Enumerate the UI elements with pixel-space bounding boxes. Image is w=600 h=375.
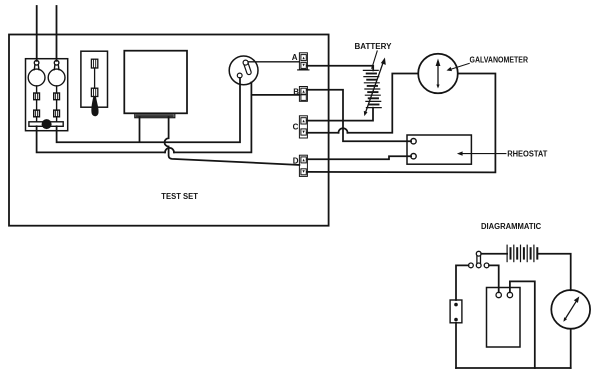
wire sub fuse to bottom [455, 323, 457, 368]
wire terminal C top to battery bottom [307, 108, 373, 121]
battery leader line [372, 51, 377, 68]
wire left contact to sub fuse [456, 265, 469, 300]
wire from base right to terminal D [165, 118, 300, 165]
meter cover base [135, 113, 175, 117]
wire branch to terminal B [251, 94, 299, 96]
wire hop on bus B [165, 148, 174, 153]
wire sub meter bottom [570, 329, 572, 368]
sub bottom wire [456, 367, 571, 369]
svg-text:C: C [293, 123, 299, 132]
terminal C arrows [302, 120, 304, 134]
rheostat terminal bottom [411, 154, 416, 159]
terminal block B [299, 87, 307, 102]
coil terminal 1 [496, 292, 501, 297]
wire sub battery left to plug [481, 253, 507, 255]
svg-text:D: D [293, 157, 299, 166]
knob on terminal block [42, 119, 52, 129]
test set enclosure box [9, 35, 329, 226]
wire right contact to coil [489, 265, 499, 292]
wire terminal B to rheostat top [307, 90, 411, 142]
terminal D arrows [302, 159, 304, 173]
wire rotary switch to terminal A [248, 61, 299, 63]
svg-text:GALVANOMETER: GALVANOMETER [470, 56, 529, 65]
wire line cord 2 [56, 6, 58, 61]
battery BT1 plates [363, 70, 381, 107]
galvanometer leader arrow [449, 63, 469, 69]
toggle switch lever [91, 59, 97, 96]
wire bus B : fuse block left post to rotary switch [37, 82, 252, 152]
terminal A flange [298, 69, 309, 71]
terminal A arrows [302, 57, 304, 67]
galvanometer M1 [418, 54, 458, 94]
toggle switch box [81, 51, 108, 107]
rheostat R1 box [407, 135, 471, 164]
svg-text:B: B [293, 88, 299, 97]
terminal B arrow [302, 90, 304, 93]
wire terminal C bottom to galvanometer left [307, 74, 418, 133]
svg-text:TEST SET: TEST SET [161, 192, 198, 201]
terminal block D [299, 155, 307, 176]
galvanometer needle [437, 64, 439, 86]
contact left [469, 263, 474, 268]
battery variable arrow [366, 62, 384, 113]
wire sub battery right to sub meter [538, 254, 571, 291]
wire hop on C wire [339, 128, 348, 133]
coil terminal 2 [507, 292, 512, 297]
wire bus A : fuse block right post to rotary switch contact [57, 78, 240, 142]
sub meter needle [565, 300, 578, 320]
terminal block A [299, 53, 307, 70]
svg-text:A: A [292, 53, 298, 62]
terminal block C [299, 116, 307, 138]
sub meter [551, 290, 590, 329]
wire from base left to bus A [139, 118, 141, 143]
contact right [484, 263, 489, 268]
svg-text:RHEOSTAT: RHEOSTAT [507, 149, 547, 158]
coil box [487, 288, 521, 348]
rheostat leader arrow [460, 153, 506, 155]
wire coil terminal 2 to bottom [510, 281, 535, 368]
rotary switch [229, 56, 258, 85]
svg-text:BATTERY: BATTERY [355, 42, 393, 51]
plug switch [476, 251, 481, 267]
wire terminal D top to rheostat bottom [307, 156, 411, 159]
wire terminal A to battery [307, 66, 373, 71]
sub fuse box [450, 300, 462, 323]
toggle switch handle [91, 97, 98, 117]
svg-text:DIAGRAMMATIC: DIAGRAMMATIC [481, 222, 541, 231]
wire terminal D bottom to galvanometer right [307, 74, 495, 173]
rheostat terminal top [411, 139, 416, 144]
meter cover box [124, 51, 187, 114]
line terminal fuse block [26, 59, 68, 131]
sub fuse dots [454, 303, 458, 307]
sub battery plates [507, 245, 537, 261]
wire line cord 1 [36, 6, 38, 61]
